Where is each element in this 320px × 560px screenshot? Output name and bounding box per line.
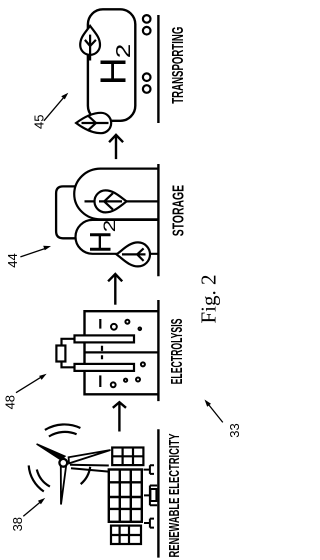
ground line: electrolysis <box>157 300 159 401</box>
truck leaf icon A (top, tip up) <box>80 26 100 61</box>
lead line for 38 <box>23 501 42 517</box>
storage cylinder 1 (upper) <box>74 169 158 220</box>
ground line: storage <box>157 164 159 276</box>
truck leaf icon B (bottom left, tip left) <box>76 113 111 133</box>
electrode wire upper <box>62 339 75 346</box>
bubble tick upper chamber <box>99 319 101 329</box>
svg-text:45: 45 <box>31 115 46 129</box>
electrode wire lower <box>62 362 75 368</box>
svg-text:TRANSPORTING: TRANSPORTING <box>170 27 187 104</box>
storage cylinder 2 (lower, H2) <box>75 220 158 254</box>
storage leaf icon 1 (tip right) <box>95 190 127 212</box>
solar panel B (middle large) <box>109 470 142 522</box>
svg-text:ELECTROLYSIS: ELECTROLYSIS <box>169 318 186 384</box>
electrolyzer tank walls <box>85 311 159 394</box>
svg-text:Fig. 2: Fig. 2 <box>197 274 221 323</box>
lead line for 33 <box>207 403 223 422</box>
svg-text:RENEWABLE ELECTRICITY: RENEWABLE ELECTRICITY <box>166 434 183 558</box>
bubbles lower chamber <box>111 362 145 387</box>
leaf stem line on cylinder 1 <box>85 200 159 202</box>
svg-text:33: 33 <box>227 423 240 437</box>
panel foot bracket 1 <box>144 465 155 474</box>
turbine motion arcs top <box>45 424 81 436</box>
solar panel C (lower) <box>111 526 141 544</box>
storage manifold pipe (pill connector) <box>56 186 76 238</box>
electrode plate 1 <box>75 335 135 342</box>
turbine motion arcs lower-right <box>81 467 91 484</box>
tanker truck tank body <box>88 9 135 121</box>
lead line for 45 <box>44 96 65 121</box>
panel foot bracket 3 <box>144 519 154 528</box>
svg-text:44: 44 <box>5 253 20 267</box>
lead line for 44 <box>20 248 46 257</box>
svg-text:2: 2 <box>100 220 119 233</box>
wind turbine tower lines <box>70 465 109 472</box>
power source box <box>56 346 65 362</box>
truck wheel 4 <box>143 85 151 93</box>
flow arrow: renewable to electrolysis <box>113 402 126 431</box>
turbine motion arcs lower-left <box>29 465 50 491</box>
svg-text:2: 2 <box>113 44 135 59</box>
wind turbine hub <box>59 459 67 467</box>
storage leaf icon 2 (tip left) <box>117 242 151 266</box>
svg-text:38: 38 <box>10 517 25 531</box>
wind turbine blade right <box>69 450 111 463</box>
solar panel A (upper) <box>112 448 143 466</box>
wind turbine blade down <box>61 466 66 504</box>
flow arrow: storage to transporting <box>109 135 123 159</box>
truck wheel 1 <box>143 15 151 23</box>
svg-text:48: 48 <box>3 395 18 409</box>
truck wheel 2 <box>143 27 151 35</box>
svg-text:STORAGE: STORAGE <box>171 185 188 237</box>
truck wheel 3 <box>143 73 151 81</box>
ground line: transporting <box>157 15 159 123</box>
bubbles upper chamber <box>111 320 141 330</box>
ground line: renewable electricity <box>157 429 159 557</box>
svg-text:H: H <box>85 231 118 254</box>
flow arrow: electrolysis to storage <box>108 274 122 305</box>
bubble tick lower chamber <box>99 375 101 387</box>
lead line for 48 <box>16 376 43 393</box>
wind turbine blade up-left <box>37 444 65 460</box>
panel foot bracket 2 (middle) <box>144 486 157 506</box>
electrode plate 2 <box>75 364 135 371</box>
svg-text:H: H <box>92 57 133 85</box>
electrolyzer middle divider <box>85 351 159 353</box>
membrane dash marks <box>101 346 103 359</box>
